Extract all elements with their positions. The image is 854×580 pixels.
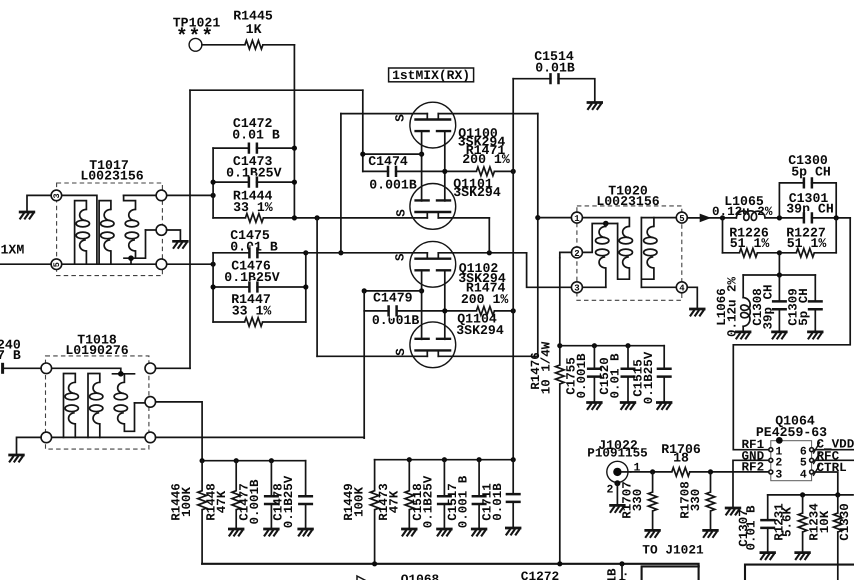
wire C1479 left jog and LO- rail down to T1018 [363,291,365,438]
wire bottom bus [202,564,698,580]
pin T1018 top left [41,363,52,374]
winding T1020-A [596,224,609,288]
svg-text:100K: 100K [353,487,367,518]
wire Q1102 drain line right [438,252,526,254]
wire R1445 to bias rail corner [263,44,295,46]
wire CTRL to divider [814,472,838,495]
wire drain tie vertical [488,218,490,253]
svg-text:4: 4 [679,284,685,294]
node C1472 right [292,146,297,151]
svg-text:1stMIX(RX): 1stMIX(RX) [392,68,470,83]
wire T1020 pin5 link [641,217,676,219]
capacitor C1475 0.01 B [213,228,306,260]
svg-text:0.001B: 0.001B [248,479,262,525]
svg-text:10K: 10K [818,510,832,533]
wire T1018 bottom right pin to LO- rail [156,436,365,439]
pin T1018 right middle [145,397,156,408]
wire LO rail x=190 from bus to T1018 [189,90,191,368]
resistor R1448 47K [205,458,245,536]
ic Q1064 PE4259-63 [756,413,827,481]
capacitor C1515 0.1B25V [632,346,673,410]
box next stage left (cut) [642,565,854,580]
terminal bar left input [1,363,4,374]
transistor Q1101 3SK294 [410,184,456,230]
node C1479 left top [362,288,367,293]
resistor R1471 200 1% [462,143,513,176]
svg-text:L0023156: L0023156 [80,168,143,183]
wire gate rail left pair2 [421,270,423,339]
wire input to T1018 [3,367,41,369]
transformer T1017 L0023156 [57,158,163,276]
capacitor C1478 0.1B25V [272,461,314,537]
wire Q1100 source rail x=341 [340,114,342,253]
wire TP1021 to R1445 [202,44,245,46]
wire shunt bank rail [743,274,815,276]
svg-text:5: 5 [679,214,684,224]
svg-text:7 B: 7 B [0,348,21,363]
node C1476 left [211,284,216,289]
node C1476 right [303,284,308,289]
pin T1020-1 [571,212,582,224]
resistor R1445 1K [233,9,273,50]
svg-text:0.12u 2%: 0.12u 2% [712,205,773,219]
node output [834,215,839,220]
svg-text:0.001 B: 0.001 B [457,475,471,528]
svg-text:330: 330 [631,489,645,512]
resistor R1476 10 1/4W [529,258,564,564]
wire R1226 R1227 branch verticals [723,218,837,253]
svg-text:C1272: C1272 [521,569,559,580]
wire R1446 bank rail [202,460,306,462]
wire node B line to Q1102 source [306,252,428,254]
ground at T1017 pin3 [19,212,35,219]
arrow Q1068 (cut) [357,576,366,580]
svg-text:S: S [394,253,408,261]
inductor L1066 0.12u 2% [715,275,751,339]
node gate1 tap [419,152,424,157]
svg-text:RF2: RF2 [742,460,765,474]
capacitor C1476 0.1B 25V [213,258,306,294]
node T1018 winding tap [118,371,124,377]
winding T1017-2 [99,201,114,265]
wire lower RC block right rail [305,253,307,322]
pin T1018 right bottom [145,432,156,443]
wire T1017 pin3 to ground [27,195,51,211]
wire T1020 pin4 link [641,286,676,288]
resistor R1447 33 1% [213,292,306,326]
svg-text:1: 1 [574,214,580,224]
resistor R1446 100K [170,461,207,564]
capacitor C1472 0.01 B [213,116,294,155]
wire T1017 top right link [124,194,157,196]
winding T1018-2 [88,374,103,438]
wire RFC off page [814,459,854,461]
capacitor C1309 5p CH [787,275,824,339]
wire CTRL divider rail [768,494,853,496]
svg-text:10 1/4W: 10 1/4W [540,341,554,394]
winding T1020-C [641,218,657,288]
node B at block output [303,250,308,255]
resistor R1449 100K [342,460,379,564]
wire gate rail left pair1 [421,131,423,201]
node C1474 left top [360,152,365,157]
wire T1017 pin3 to upper RC block [167,194,214,196]
svg-text:3: 3 [775,468,782,481]
resistor R1707 330 [621,472,661,538]
resistor R1444 33 1% [213,189,273,223]
svg-text:0.01B: 0.01B [491,483,505,521]
winding T1018-1 [64,374,79,438]
wire T1018 mid pin link [135,402,146,404]
capacitor C1300 5p CH [788,153,831,190]
svg-text:2: 2 [574,249,579,259]
svg-text:0.: 0. [617,570,631,580]
capacitor C1307 0.01 B [737,495,776,560]
winding T1018-3 [113,374,135,432]
wire bias rail x=294 (R1445 down through block) [293,45,295,218]
node upper block input [211,193,216,198]
svg-text:TO J1021: TO J1021 [642,542,704,557]
svg-text:C1479: C1479 [373,291,413,306]
transformer T1018 L0190276 [46,332,149,449]
node L1065 input [720,215,725,220]
node Q1101/Q1102 drain tie [487,250,492,255]
svg-text:0.1B25V: 0.1B25V [282,475,296,528]
wire MIXM input [0,263,51,265]
pin T1020-5 [676,212,687,224]
wire T1020 pin5 output [687,217,736,219]
transistor Q1102 3SK294 [410,241,456,287]
pin T1020-4 [676,282,687,294]
wire bias rail x=513 [512,79,514,460]
wire T1017 bottom link [62,263,157,265]
pin T1018 bottom left [41,432,52,443]
wire Q1104 source line [317,355,427,357]
resistor R1706 18 [661,442,701,476]
node C1473 left [211,180,216,185]
svg-text:C1330: C1330 [838,503,852,541]
svg-text:4: 4 [800,468,807,481]
label box 1stMIX(RX) [389,68,474,83]
node R1476 at C bank rail [557,343,562,348]
ground at T1018 [8,455,24,462]
wire T1020 pin1 feed [538,217,572,219]
wire node A line (R1444 out to Q1101 source) [263,217,427,219]
node R1708 tap [708,469,713,474]
node lower block input [211,262,216,267]
svg-text:0.001B: 0.001B [369,178,417,193]
arrow signal direction [700,214,712,223]
resistor R1473 47K [377,457,417,536]
svg-text:Q1068: Q1068 [401,572,439,580]
wire T1018 middle pin to R1446 bank [156,402,203,461]
pin T1017 right middle [156,225,167,236]
wire R1449 bank rail [375,459,514,461]
node R1449 at bus [372,561,377,566]
svg-text:330: 330 [689,489,703,512]
svg-text:47K: 47K [215,490,229,513]
wire T1020 pin3 to winding A [582,286,605,288]
wire GND pin to ground [733,460,769,507]
svg-text:S: S [394,348,408,356]
capacitor C1301 39p CH [786,191,834,225]
wire J1022 to RF2 [631,471,769,473]
pin T1017 right top [156,190,167,201]
node C1474 to gate2 rail [442,169,447,174]
wire shunt branch down [778,253,780,275]
resistor R1474 200 1% [461,280,513,315]
capacitor C1517 0.001 B [446,457,487,536]
resistor R1227 51 1% [779,225,836,257]
svg-text:33 1%: 33 1% [232,304,272,319]
svg-text:3SK294: 3SK294 [453,185,501,200]
svg-text:0.1B25V: 0.1B25V [642,351,656,404]
wire T1020 pin2 center tap [582,224,617,253]
wire T1018 top right pin to LO rail [156,367,190,369]
capacitor C1308 39p CH [751,275,788,339]
capacitor C1479 0.001B [364,291,476,329]
pin T1020-2 [571,247,582,259]
wire T1018 bottom link [52,436,146,438]
capacitor C1520 0.01 B [598,343,636,410]
resistor R1226 51 1% [723,225,780,257]
svg-text:3: 3 [52,193,62,198]
wire T1020 pin4 to ground [687,287,697,308]
wire T1017 winding top link [62,195,97,264]
wire LO bus horizontal y=90 [190,89,363,91]
svg-text:0.01 B: 0.01 B [232,127,280,142]
wire LO bus drop to C1474 node [362,90,364,171]
svg-text:0.1B25V: 0.1B25V [422,475,436,528]
svg-text:2: 2 [607,483,614,496]
capacitor C1477 0.001B [238,458,280,536]
wire drain pair1 to T1020 pin3 [527,253,572,287]
svg-text:51 1%: 51 1% [787,236,827,251]
node after L1065 [777,215,782,220]
node A branch to x=317 rail [315,215,320,220]
svg-text:0.01 B: 0.01 B [609,353,623,399]
svg-text:S: S [394,114,408,122]
node R1226/R1227 junction [777,250,782,255]
connector J1022 P1091155 [587,438,647,513]
svg-text:L0023156: L0023156 [596,194,659,209]
svg-text:47K: 47K [388,490,402,513]
ground at T1020 pin4 [689,309,705,316]
winding T1017-1 [75,201,90,265]
svg-text:CTRL: CTRL [817,461,847,475]
wire L1065 to C network [765,217,850,219]
svg-text:200 1%: 200 1% [461,292,509,307]
node shunt rail [777,272,782,277]
wire C_VDD off page [814,449,854,451]
capacitor C1473 0.1B 25V [213,154,294,189]
wire gate1 tap line pair2 [364,290,421,292]
pin T1017-5 bottom left [51,259,62,270]
node C1272 at bus [619,561,624,566]
node R1476 at bus [557,561,562,566]
ground at T1017 middle pin [172,241,188,248]
capacitor C1755 0.001B [565,343,603,410]
wire upper RC block left rail [212,148,214,218]
wire C1755 bank rail [560,345,664,347]
transistor Q1100 3SK294 [410,102,456,148]
svg-text:1K: 1K [246,22,262,37]
svg-text:5.6K: 5.6K [781,507,795,538]
svg-text:3SK294: 3SK294 [456,323,504,338]
transistor Q1104 3SK294 [410,322,456,368]
wire Q1101 drain line right [438,217,489,219]
wire drain rail x=538 (Q1100/Q1104 to T1020 pin1) [537,114,539,357]
svg-text:1XM: 1XM [1,243,25,258]
test point TP1021 [173,16,221,52]
pin T1020-3 [571,282,582,294]
pin T1017-3 top left [51,190,62,201]
node gate1 tap pair2 [419,288,424,293]
svg-text:S: S [395,209,409,217]
svg-text:100K: 100K [180,487,194,518]
pin T1017 right bottom [156,259,167,270]
winding T1020-B [618,224,633,280]
wire C1300 parallel loop [779,183,836,218]
wire lower RC block left rail [212,253,214,322]
svg-text:0.01 B: 0.01 B [745,505,759,551]
svg-text:3: 3 [574,284,579,294]
node C1473 right [292,180,297,185]
wire T1017 sec mid to pin [146,229,157,231]
node A at bias rail [292,215,297,220]
svg-text:5p CH: 5p CH [791,164,831,179]
wire Q1100 S/D line [341,113,538,115]
node T1017 winding tap [128,255,134,261]
svg-text:P1091155: P1091155 [587,447,647,461]
wire gate1 tap line [363,153,422,155]
wire gate rail right pair2 [444,270,446,339]
ground at C1514 [587,103,603,110]
transformer T1020 L0023156 [577,183,682,300]
node R1474 at bias rail [511,308,516,313]
winding T1017-3 [124,195,146,264]
svg-text:200 1%: 200 1% [462,152,510,167]
wire output route to Q1064 RF1 [733,218,850,450]
resistor R1708 330 [679,472,719,538]
svg-text:18: 18 [673,450,689,465]
node T1020 center tap [603,221,609,227]
wire rail x=317 down to Q1104 source [316,218,318,356]
svg-text:51 1%: 51 1% [730,236,770,251]
node Q1100 source to node B [338,250,343,255]
wire C1272 lead [621,564,623,580]
wire T1017 right middle pin to ground [167,230,181,240]
node C1479 to gate2 rail [442,308,447,313]
pin T1018 right top [145,363,156,374]
capacitor C1514 0.01B [513,49,595,102]
wire gate rail right pair1 [444,131,446,201]
resistor R1234 10K [808,492,843,580]
capacitor C1711 0.01B [481,457,522,535]
node bank1 left [200,458,205,463]
node drain rail at pin1 wire [535,215,540,220]
capacitor C1518 0.1B25V [411,457,453,536]
wire T1018 winding top link [52,368,121,374]
svg-text:0.12u 2%: 0.12u 2% [726,276,740,337]
svg-text:5: 5 [52,262,62,267]
wire Q1104 drain line right [438,355,538,357]
ground at Q1064 GND [725,508,741,515]
node R1707 tap [650,469,655,474]
wire T1017 pin5 to lower RC block [167,263,214,265]
wire T1020 pin1 to winding B [582,218,629,227]
inductor L1065 0.12u 2% [712,194,773,221]
capacitor C1474 0.001B [363,154,477,193]
node R1471 at bias rail [511,169,516,174]
wire T1018 bottom pin to ground [17,437,42,454]
wire T1020 pin2 to R1476 [560,252,572,257]
resistor R1231 5.6K [773,492,811,560]
